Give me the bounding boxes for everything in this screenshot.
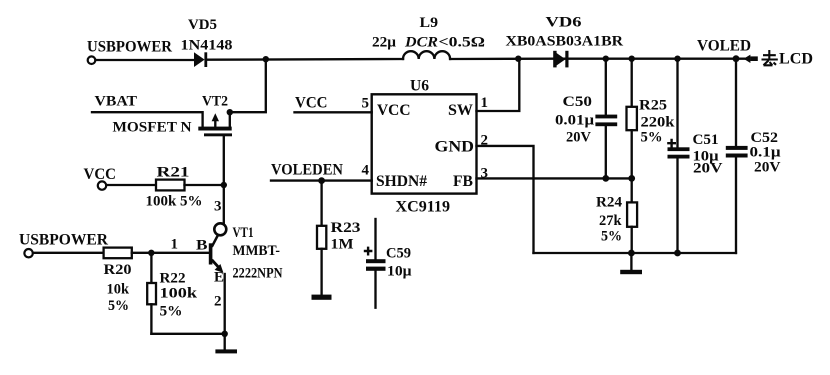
- terminal USBPOWER bottom: [24, 249, 32, 257]
- capacitor C51: [667, 59, 689, 253]
- svg-text:MOSFET N: MOSFET N: [113, 120, 192, 136]
- wire VOLEDEN to pin 4: [271, 179, 372, 181]
- svg-text:5%: 5%: [160, 304, 183, 320]
- label qu LCD: [762, 50, 814, 68]
- wire VD6 cathode to VOLED arrow: [564, 58, 744, 60]
- svg-text:VCC: VCC: [84, 166, 117, 183]
- svg-text:3: 3: [481, 166, 489, 182]
- svg-text:L9: L9: [420, 15, 439, 31]
- svg-text:DCR: DCR: [404, 35, 438, 51]
- ground below VT1: [215, 334, 237, 354]
- svg-text:<0.5Ω: <0.5Ω: [439, 35, 486, 51]
- arrow to LCD: [744, 55, 758, 63]
- wire VCC to pin 5: [295, 111, 372, 113]
- node C51 top junction: [674, 56, 680, 62]
- node VOLED junction: [733, 55, 740, 62]
- svg-text:VCC: VCC: [377, 102, 411, 119]
- wire R22 bottom to emitter node: [151, 333, 224, 335]
- svg-text:VOLEDEN: VOLEDEN: [271, 162, 343, 179]
- node FB divider junction: [628, 175, 635, 182]
- svg-text:0.1μ: 0.1μ: [750, 145, 782, 161]
- svg-text:4: 4: [362, 163, 370, 179]
- svg-text:GND: GND: [435, 139, 475, 156]
- terminal USBPOWER top: [88, 56, 96, 64]
- transistor VT2 MOSFET: [198, 112, 232, 136]
- svg-text:R21: R21: [157, 165, 190, 181]
- svg-text:1M: 1M: [331, 237, 354, 253]
- resistor R20: [104, 248, 132, 259]
- svg-text:5%: 5%: [641, 130, 663, 146]
- capacitor C59: [364, 219, 386, 308]
- svg-text:R25: R25: [639, 98, 667, 114]
- ground below R24: [620, 253, 642, 274]
- svg-text:20V: 20V: [754, 160, 781, 176]
- node VOLEDEN junction: [318, 177, 325, 184]
- svg-text:XB0ASB03A1BR: XB0ASB03A1BR: [506, 34, 624, 50]
- wire node B down to VT1 collector: [223, 185, 225, 224]
- svg-text:1N4148: 1N4148: [181, 38, 233, 54]
- resistor R21: [156, 180, 185, 191]
- capacitor C52: [726, 59, 748, 253]
- node C51 bottom junction: [674, 250, 681, 257]
- node emitter-ground junction: [222, 331, 228, 337]
- node A junction (VD5 / drain / L9): [263, 56, 269, 62]
- node SW junction: [515, 56, 521, 62]
- svg-text:20V: 20V: [693, 161, 723, 177]
- svg-text:100k: 100k: [160, 286, 198, 302]
- svg-text:1: 1: [481, 95, 489, 111]
- svg-text:VBAT: VBAT: [95, 94, 138, 110]
- transistor VT1 NPN: [209, 235, 224, 273]
- wire USBPOWER to VD5 anode: [96, 59, 194, 61]
- wire node A down to VT2 drain: [230, 59, 266, 112]
- svg-text:VD6: VD6: [546, 15, 583, 31]
- svg-text:VOLED: VOLED: [697, 38, 751, 55]
- diode VD6: [553, 51, 568, 68]
- terminal VCC mid-left: [98, 181, 106, 189]
- wire R21 to node B: [185, 184, 224, 186]
- svg-text:MMBT-: MMBT-: [233, 243, 281, 259]
- svg-text:27k: 27k: [599, 213, 622, 229]
- svg-text:R20: R20: [104, 262, 132, 278]
- svg-text:5%: 5%: [601, 229, 622, 245]
- wire pin 1 SW to top rail: [477, 59, 520, 111]
- svg-text:2: 2: [214, 294, 222, 310]
- IC U6 body: [372, 94, 477, 193]
- svg-text:R24: R24: [596, 195, 622, 211]
- node drain junction: [227, 109, 233, 115]
- wire pin 3 FB to divider node: [477, 177, 632, 179]
- svg-text:U6: U6: [410, 78, 429, 95]
- node C50 bottom junction: [602, 175, 609, 182]
- node B junction (gate/R21/collector): [221, 182, 227, 188]
- resistor R25: [627, 59, 637, 179]
- wire VT2 gate down to node B: [223, 136, 225, 185]
- svg-text:R23: R23: [331, 220, 361, 236]
- svg-text:SHDN#: SHDN#: [376, 173, 427, 190]
- ground below R23: [312, 295, 332, 300]
- node R25 top junction: [629, 56, 635, 62]
- svg-text:VCC: VCC: [295, 95, 328, 112]
- svg-text:USBPOWER: USBPOWER: [87, 39, 172, 56]
- wire L9 to VD6 anode: [450, 58, 553, 61]
- resistor R22: [147, 253, 156, 334]
- svg-text:VT1: VT1: [233, 225, 254, 241]
- svg-text:2: 2: [481, 133, 489, 149]
- svg-text:LCD: LCD: [779, 51, 813, 68]
- wire pin 2 GND down to bottom rail: [477, 146, 534, 253]
- svg-text:1: 1: [171, 237, 179, 253]
- svg-text:XC9119: XC9119: [396, 199, 451, 216]
- svg-text:20V: 20V: [566, 130, 591, 146]
- capacitor C50: [595, 59, 617, 179]
- wire VBAT to VT2 source: [92, 112, 203, 127]
- svg-text:100k 5%: 100k 5%: [146, 194, 203, 210]
- svg-text:3: 3: [214, 199, 222, 215]
- svg-text:2222NPN: 2222NPN: [233, 266, 283, 282]
- node C50 top junction: [603, 56, 609, 62]
- wire USBPOWER to R20: [33, 252, 104, 254]
- resistor R24: [627, 178, 637, 253]
- svg-text:C50: C50: [563, 94, 593, 110]
- svg-text:10k: 10k: [107, 282, 130, 298]
- wire R20 to VT1 base: [132, 252, 209, 254]
- node R24 bottom junction: [628, 250, 635, 257]
- svg-text:0.01μ: 0.01μ: [555, 113, 595, 129]
- svg-text:FB: FB: [453, 173, 473, 190]
- svg-text:22μ: 22μ: [372, 35, 396, 51]
- inductor L9: [403, 51, 450, 59]
- svg-text:VD5: VD5: [188, 17, 217, 33]
- svg-text:B: B: [196, 238, 208, 254]
- svg-text:5: 5: [362, 96, 370, 112]
- svg-text:E: E: [214, 270, 224, 286]
- wire VCC to R21: [106, 184, 156, 186]
- wire bottom rail: [534, 252, 736, 254]
- node base junction (R20/R22/base): [148, 250, 154, 256]
- svg-text:C51: C51: [693, 132, 719, 148]
- svg-text:10μ: 10μ: [387, 264, 412, 280]
- svg-text:USBPOWER: USBPOWER: [19, 232, 108, 249]
- wire emitter down: [224, 274, 226, 334]
- collector circle C: [214, 223, 226, 235]
- svg-text:R22: R22: [160, 271, 186, 287]
- svg-text:220k: 220k: [641, 115, 676, 131]
- svg-text:C59: C59: [386, 246, 411, 262]
- svg-text:SW: SW: [448, 102, 473, 119]
- resistor R23: [317, 181, 326, 295]
- diode VD5: [194, 52, 207, 67]
- wire VD5 cathode to node A: [207, 58, 403, 61]
- svg-text:VT2: VT2: [202, 94, 228, 110]
- svg-text:5%: 5%: [108, 298, 129, 314]
